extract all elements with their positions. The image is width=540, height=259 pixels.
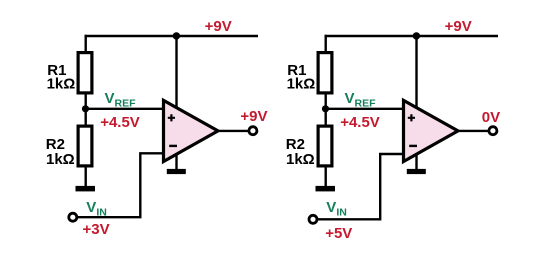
- wire R1 bottom to R2 top (right): [325, 93, 327, 127]
- wire op-amp V- to ground (right): [415, 150, 417, 170]
- ground below op-amp (right): [407, 169, 426, 174]
- svg-text:+9V: +9V: [445, 18, 472, 35]
- op-amp U1 - input marker (left): [169, 145, 177, 147]
- terminal output (right): [489, 127, 497, 135]
- svg-text:1kΩ: 1kΩ: [286, 151, 315, 168]
- node VREF junction (left): [82, 105, 89, 112]
- node VREF junction (right): [322, 105, 329, 112]
- wire rail corner down to R1 top (left): [84, 35, 86, 53]
- op-amp U2 + input marker (right): [408, 114, 415, 121]
- terminal VIN (left): [69, 213, 77, 221]
- wire VREF to op-amp + input (left): [86, 108, 164, 110]
- wire op-amp output (right): [458, 130, 489, 132]
- ground below op-amp (left): [167, 169, 186, 174]
- wire R2 bottom to ground (left): [84, 165, 86, 188]
- wire op-amp output (left): [218, 130, 249, 132]
- svg-text:+5V: +5V: [325, 225, 352, 242]
- terminal output (left): [249, 127, 257, 135]
- wire op-amp V- to ground (left): [175, 150, 177, 170]
- wire VREF to op-amp + input (right): [326, 108, 404, 110]
- wire op-amp V+ supply (left): [175, 36, 177, 111]
- svg-text:+4.5V: +4.5V: [100, 114, 140, 131]
- node rail junction (right): [413, 32, 420, 39]
- svg-text:+9V: +9V: [240, 108, 267, 125]
- resistor R1 (left): [78, 53, 92, 93]
- terminal VIN (right): [309, 215, 317, 223]
- svg-text:+3V: +3V: [83, 221, 110, 238]
- wire rail corner down to R1 top (right): [325, 35, 327, 53]
- svg-text:1kΩ: 1kΩ: [287, 76, 316, 93]
- op-amp U1 (left): [164, 100, 219, 161]
- wire +9V rail (left): [85, 35, 259, 37]
- resistor R2 (left): [78, 126, 92, 166]
- svg-text:+9V: +9V: [205, 18, 232, 35]
- op-amp U2 (right): [404, 100, 459, 161]
- op-amp U1 + input marker (left): [168, 114, 175, 121]
- wire VIN to op-amp - input (left): [78, 153, 163, 217]
- wire VIN to op-amp - input (right): [318, 154, 403, 219]
- wire R1 bottom to R2 top (left): [84, 93, 86, 127]
- op-amp U2 - input marker (right): [409, 145, 417, 147]
- wire R2 bottom to ground (right): [325, 165, 327, 188]
- resistor R2 (right): [318, 126, 332, 166]
- ground below R2 (right): [316, 186, 336, 192]
- svg-text:+4.5V: +4.5V: [340, 114, 380, 131]
- ground below R2 (left): [76, 186, 96, 192]
- resistor R1 (right): [318, 53, 332, 93]
- wire +9V rail (right): [325, 35, 499, 37]
- svg-text:0V: 0V: [482, 109, 500, 126]
- wire op-amp V+ supply (right): [415, 36, 417, 111]
- node rail junction (left): [173, 32, 180, 39]
- svg-text:1kΩ: 1kΩ: [47, 76, 76, 93]
- svg-text:1kΩ: 1kΩ: [46, 151, 75, 168]
